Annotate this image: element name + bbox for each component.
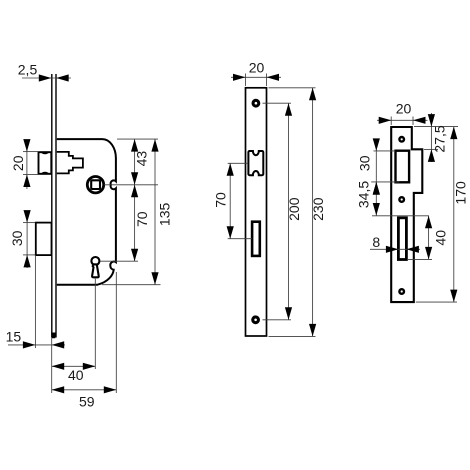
30 <box>374 150 396 152</box>
70 <box>228 162 249 164</box>
20 arrows outside <box>379 117 392 124</box>
svg-text:230: 230 <box>310 197 326 221</box>
svg-text:30: 30 <box>357 155 373 171</box>
20 <box>245 74 247 87</box>
svg-text:27,5: 27,5 <box>432 125 448 152</box>
8 arrows outside <box>386 246 399 253</box>
dim 40 bottom <box>94 279 96 369</box>
svg-text:30: 30 <box>9 230 25 246</box>
svg-text:70: 70 <box>213 192 229 208</box>
deadbolt (outside) <box>36 223 52 256</box>
170 arrows inside <box>450 127 457 140</box>
20 <box>390 117 392 126</box>
dim 15 <box>34 255 36 348</box>
8 <box>370 248 420 250</box>
arrows left view <box>23 74 159 393</box>
screw hole top <box>252 99 261 108</box>
dim 43 / 135 top ext <box>117 138 158 140</box>
faceplate edge strip <box>52 74 56 338</box>
svg-text:70: 70 <box>134 211 150 227</box>
27,5 <box>424 148 438 150</box>
230 <box>269 87 316 89</box>
70 arrows (inside, vertical) <box>131 185 138 198</box>
30 deadbolt arrows (outside) <box>24 210 31 223</box>
screw holes <box>398 136 405 143</box>
20 arrows outside <box>233 74 246 81</box>
faceplate strip bottom tip <box>51 333 56 339</box>
200 arrows inside <box>285 103 292 116</box>
dim 2,5 line <box>22 77 71 79</box>
deadbolt slot <box>398 218 406 260</box>
latch head bevel bands <box>39 151 50 154</box>
body bottom ext <box>102 284 161 286</box>
svg-text:20: 20 <box>249 60 265 76</box>
40 arrows inside <box>425 216 432 229</box>
135 arrows (inside, vertical) <box>151 139 158 152</box>
svg-text:170: 170 <box>452 181 468 205</box>
40 arrows (inside) <box>52 363 64 370</box>
70 arrows inside <box>227 163 234 176</box>
2,5 arrows <box>39 74 52 81</box>
230 arrows inside <box>309 88 316 101</box>
svg-text:20: 20 <box>10 155 26 171</box>
dim 30 deadbolt ext lines <box>23 222 36 224</box>
latch cutout with notches <box>248 151 263 175</box>
svg-text:59: 59 <box>79 393 95 409</box>
svg-text:43: 43 <box>133 151 149 167</box>
latch bolt head (outside) <box>39 152 52 174</box>
keyhole <box>91 257 99 265</box>
latch opening <box>396 151 410 183</box>
170 + top ext <box>414 126 458 128</box>
15 arrows (outside) <box>23 341 36 348</box>
34,5 <box>372 215 429 217</box>
svg-text:20: 20 <box>396 101 412 117</box>
30 arrows outside <box>373 138 380 151</box>
59 arrows (inside) <box>52 386 64 393</box>
20 latch arrows (outside) <box>23 139 30 152</box>
follower center ext <box>104 184 158 186</box>
svg-text:40: 40 <box>68 367 84 383</box>
lock case outline <box>57 139 116 285</box>
keyhole center ext <box>100 260 138 262</box>
dimension line style <box>8 78 161 393</box>
200 <box>263 102 292 104</box>
34,5 arrows inside <box>373 182 380 195</box>
latch bolt tail (inside case) <box>57 152 83 174</box>
dim 59 bottom <box>115 272 117 393</box>
deadbolt cutout <box>252 222 260 256</box>
svg-text:2,5: 2,5 <box>18 62 38 78</box>
svg-text:135: 135 <box>157 203 173 227</box>
dim 20 latch ext lines <box>23 151 39 153</box>
svg-text:8: 8 <box>372 234 380 250</box>
svg-text:34,5: 34,5 <box>356 181 372 208</box>
svg-text:200: 200 <box>286 197 302 221</box>
texts left view <box>6 62 173 410</box>
screw hole bottom <box>251 315 260 324</box>
43 arrows (inside, vertical) <box>131 139 138 152</box>
27,5 arrows outside <box>428 114 435 127</box>
svg-text:15: 15 <box>6 329 22 345</box>
svg-text:40: 40 <box>433 230 449 246</box>
follower (square spindle hub) <box>87 177 103 193</box>
40 <box>407 258 432 260</box>
